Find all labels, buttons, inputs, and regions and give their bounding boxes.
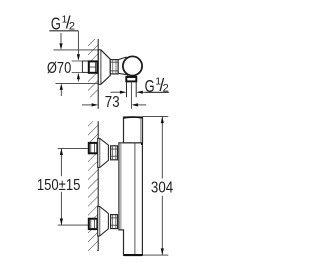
outlet collar (thick) bbox=[126, 77, 136, 81]
body bottom edge thick bbox=[124, 254, 141, 256]
dimension 73 right arrow (points left at pipe centerline) bbox=[138, 104, 147, 106]
wall hatching (front view) bbox=[88, 121, 98, 251]
svg-text:304: 304 bbox=[151, 179, 173, 196]
adapter piece between nut and valve body bbox=[118, 57, 126, 74]
svg-text:73: 73 bbox=[105, 94, 120, 111]
outlet pipe centerline / 73 extension line bbox=[130, 81, 132, 108]
svg-text:Ø70: Ø70 bbox=[47, 60, 71, 77]
leader from G1/2 label down to nipple bbox=[77, 31, 79, 55]
bottom escutcheon (front view) bbox=[98, 207, 109, 236]
bottom union nut (front view) bbox=[111, 215, 118, 229]
stub inner detail lines bbox=[90, 66, 96, 68]
G1/2 nipple extension lines bbox=[72, 60, 83, 62]
dimension Ø70 extension line bottom bbox=[56, 82, 99, 84]
svg-text:150±15: 150±15 bbox=[37, 177, 81, 194]
label G1/2 underline (right) bbox=[145, 91, 169, 93]
arrow pointing left at pipe right edge bbox=[139, 91, 145, 93]
top escutcheon (front view) bbox=[98, 138, 109, 167]
dimension 150±15 line lower segment bbox=[60, 192, 62, 225]
escutcheon base ring line bbox=[100, 50, 102, 85]
dimension Ø70 extension line top bbox=[54, 49, 99, 51]
dimension 304 line upper segment bbox=[161, 117, 163, 179]
lower arrow of G1/2 nipple dimension bbox=[77, 78, 79, 82]
G1/2 supply nipple left of wall bbox=[82, 61, 88, 72]
union nut flats bbox=[111, 61, 119, 63]
dimension 304 line lower segment bbox=[161, 196, 163, 255]
arrow pointing right at pipe left edge bbox=[111, 91, 121, 93]
top union nut (front view) bbox=[111, 146, 118, 160]
svg-text:G: G bbox=[145, 76, 155, 96]
union nut (side view) bbox=[110, 60, 118, 74]
outlet neck below valve body bbox=[126, 74, 128, 77]
body top cap bbox=[124, 117, 143, 143]
valve body circle (side view) bbox=[123, 56, 142, 75]
cap top edge thick (slightly arched) bbox=[124, 116, 141, 119]
dimension 150±15 line upper segment bbox=[60, 149, 62, 177]
label G1/2 underline (top left) bbox=[49, 30, 78, 32]
wall face line (side view) with extension below for 73 dim bbox=[97, 39, 99, 109]
dimension 304 extension line top bbox=[143, 115, 169, 117]
Ø70 top arrow bbox=[60, 33, 62, 44]
dimension 304 extension line bottom bbox=[142, 254, 168, 256]
wall hatching (side view) bbox=[88, 39, 98, 97]
escutcheon cone (side view) bbox=[98, 50, 110, 85]
top wall stub (thick black) bbox=[89, 143, 98, 153]
body top right corner mark bbox=[141, 143, 143, 145]
150 dim extension line bottom (to stub) bbox=[58, 224, 89, 226]
dimension 73 left arrow (points right at wall face) bbox=[82, 104, 92, 106]
Ø70 bottom arrow bbox=[60, 90, 62, 96]
bottom wall stub (thick black) bbox=[89, 219, 98, 229]
wall-crossing stub (side view, thick black) bbox=[89, 61, 98, 72]
mixer body main column (front view) bbox=[119, 143, 142, 255]
150 dim extension line top (to stub) bbox=[58, 147, 89, 149]
body inner highlight lines bbox=[120, 143, 122, 229]
outlet pipe G1/2 down bbox=[126, 81, 128, 97]
wall face line (front view) bbox=[97, 121, 99, 251]
cap inner highlight line bbox=[140, 118, 142, 142]
